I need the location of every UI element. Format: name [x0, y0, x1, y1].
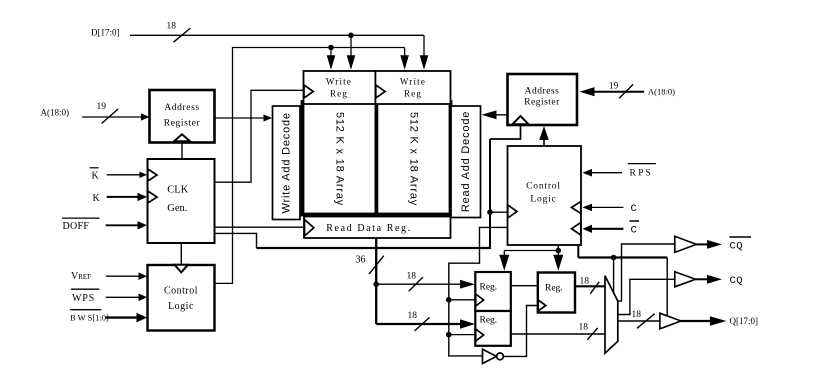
svg-text:Reg.: Reg.: [480, 316, 498, 326]
register Reg output 1: [475, 272, 511, 311]
wire C-bar input: [590, 228, 623, 230]
wire inverter out to reg3 clock: [503, 306, 537, 357]
svg-text:Register: Register: [524, 98, 560, 108]
junction on write line: [328, 45, 334, 51]
svg-text:19: 19: [97, 102, 107, 112]
chevron U6 right C-bar: [572, 223, 581, 236]
svg-text:CLK: CLK: [167, 185, 188, 196]
clock chevron output reg1: [476, 294, 484, 306]
svg-text:R P S: R P S: [630, 169, 651, 179]
svg-text:Logic: Logic: [530, 195, 556, 205]
svg-text:DOFF: DOFF: [63, 221, 90, 232]
svg-text:Read Data Reg.: Read Data Reg.: [326, 223, 411, 234]
chevron U6 right C: [572, 202, 581, 214]
register U5 Address Register right: [508, 74, 578, 125]
wire 36-bus from Read Data Reg: [375, 239, 377, 325]
wire to Q buffer enable: [666, 258, 668, 317]
wire to reg2 chevron: [449, 334, 475, 336]
svg-text:Control: Control: [526, 182, 561, 192]
wire RPS input: [591, 172, 622, 174]
svg-text:18: 18: [167, 22, 177, 32]
svg-text:Reg.: Reg.: [545, 284, 563, 294]
svg-text:Q[17:0]: Q[17:0]: [730, 316, 759, 326]
wire drop to Write Reg 2 (2nd): [404, 48, 406, 58]
svg-text:18: 18: [632, 310, 642, 320]
svg-text:K: K: [92, 171, 100, 182]
wire A input left: [82, 116, 142, 118]
svg-text:Reg: Reg: [330, 89, 348, 99]
buffer CQ-bar: [675, 236, 697, 252]
wire VREF input: [106, 275, 140, 277]
clock chevron output reg3: [538, 300, 546, 311]
svg-text:WPS: WPS: [72, 293, 95, 304]
svg-text:C: C: [631, 203, 637, 215]
bus-width slash 18 c: [590, 282, 599, 294]
block Write Add Decode: [273, 106, 301, 220]
svg-text:CQ: CQ: [730, 275, 744, 287]
svg-text:36: 36: [356, 255, 366, 266]
svg-text:Register: Register: [164, 119, 201, 129]
junction on D bus: [348, 33, 354, 39]
wire clock feed to output registers: [449, 227, 508, 356]
bus-width slash 18 e: [637, 314, 655, 329]
svg-text:A(18:0): A(18:0): [41, 108, 70, 118]
wire clock trunk vertical right: [489, 139, 491, 249]
wire reg2 to mux: [511, 333, 605, 335]
svg-text:Address: Address: [164, 103, 199, 113]
wire enable drop reg3: [557, 251, 559, 256]
junction clock to right Control Logic: [487, 209, 493, 215]
register Write Reg 1: [304, 71, 376, 104]
wire mux to CQ buffer: [618, 279, 675, 314]
wire A input right: [594, 91, 644, 93]
svg-text:512 K x 18 Array: 512 K x 18 Array: [334, 112, 346, 206]
svg-text:Reg: Reg: [404, 89, 422, 99]
wire DOFF input: [106, 224, 140, 226]
block 512Kx18 array outline: [303, 102, 451, 215]
svg-text:D[17:0]: D[17:0]: [91, 28, 120, 38]
clock chevron output reg2: [476, 329, 484, 341]
wire Q out: [681, 320, 711, 322]
register U1 Address Register left: [150, 90, 215, 143]
bus-width slash 18 b: [415, 317, 430, 331]
svg-text:18: 18: [580, 277, 590, 287]
wire 18 to output reg1: [376, 283, 461, 285]
block U6 Control Logic right: [508, 146, 582, 245]
wire BWS input: [106, 316, 138, 318]
wire U6 to U5: [543, 140, 545, 146]
wire mux to Q buffer: [618, 320, 660, 322]
svg-text:Logic: Logic: [168, 301, 194, 312]
wire U2 clock to Read Data Reg: [215, 226, 305, 228]
block U2 CLK Gen: [148, 159, 215, 243]
svg-text:Write Add Decode: Write Add Decode: [281, 112, 293, 213]
wire K input: [107, 196, 140, 198]
svg-text:Write: Write: [400, 77, 426, 87]
wire U2 clock to Write Reg 1: [215, 90, 304, 182]
svg-text:CQ: CQ: [730, 241, 744, 253]
clock chevron Read Data Reg: [305, 220, 314, 237]
wire mux to CQ-bar buffer: [618, 244, 675, 301]
wire K-bar input: [107, 174, 141, 176]
svg-text:B W S[1:0]: B W S[1:0]: [70, 313, 109, 323]
wire CQ out: [696, 278, 708, 280]
wire clock trunk horizontal thick: [257, 247, 491, 249]
bus-width slash 36: [369, 256, 384, 274]
wire control-logic to write regs: [214, 48, 404, 284]
clock notch on U1 bottom: [174, 134, 190, 141]
wire reg3 to mux: [575, 285, 605, 287]
wire 18 to output reg2: [376, 323, 461, 325]
wire drop to Write Reg 1 (2nd): [330, 48, 332, 58]
block Read Add Decode: [451, 106, 481, 218]
junction reg2 clock: [446, 332, 452, 338]
wire U6 to reg3 enable: [557, 245, 559, 251]
wire U2 clock out to right side: [215, 233, 257, 248]
wire D drop to Write Reg 2: [423, 35, 425, 57]
svg-text:Write: Write: [326, 77, 352, 87]
svg-text:18: 18: [579, 323, 589, 333]
svg-text:Gen.: Gen.: [167, 203, 187, 214]
svg-text:C: C: [631, 225, 637, 237]
svg-text:Read Add Decode: Read Add Decode: [460, 111, 472, 212]
svg-text:Address: Address: [525, 87, 560, 97]
clock chevron Write Reg 2: [376, 85, 385, 98]
bus-width slash 18 a: [409, 277, 423, 291]
wire CQ-bar out: [697, 243, 709, 245]
buffer CQ: [675, 272, 696, 287]
register Read Data Reg: [304, 217, 451, 239]
bus-width slash A left: [102, 109, 119, 124]
clock chevron Write Reg 1: [304, 85, 313, 98]
svg-text:VREF: VREF: [71, 271, 91, 282]
wire clock to U5 Address Register right: [490, 126, 521, 140]
svg-text:A(18:0): A(18:0): [648, 87, 675, 97]
clock notch on U5 bottom: [513, 116, 529, 124]
wire U6 clock down: [577, 245, 579, 258]
wire reg1 to reg3: [511, 285, 538, 287]
wire WPS input: [106, 296, 140, 298]
register Reg output 3: [538, 273, 575, 313]
array divider: [374, 102, 378, 215]
svg-text:512 K x 18 Array: 512 K x 18 Array: [408, 112, 420, 206]
svg-text:Reg.: Reg.: [480, 283, 498, 293]
register Reg output 2: [475, 311, 511, 346]
junction on 36 bus: [373, 281, 379, 287]
clock chevron U6 left: [508, 205, 517, 218]
clock chevron U2 K: [148, 191, 157, 203]
wire to reg1 chevron: [449, 299, 475, 301]
register Write Reg 2: [375, 71, 450, 104]
wire clock into U6 chevron: [490, 211, 508, 213]
wire U1 clock from CLK Gen: [181, 143, 183, 159]
wire D bus horizontal: [130, 34, 424, 36]
svg-text:18: 18: [408, 311, 418, 321]
junction mux select: [611, 255, 617, 261]
wire U1 to Write Add Decode: [214, 117, 264, 119]
wire C clock trunk: [578, 256, 667, 258]
wire D drop to Write Reg 1: [350, 35, 352, 57]
wire mux select: [613, 258, 615, 294]
clock chevron U2 K-bar: [148, 169, 157, 181]
clock notch on U3 top: [175, 265, 189, 273]
wire enable to reg1: [504, 250, 558, 252]
bus-width slash D: [174, 28, 191, 42]
bus-width slash A right: [619, 84, 633, 98]
svg-text:Control: Control: [164, 286, 198, 297]
junction enable: [556, 248, 562, 254]
wire U5 to Read Add Decode: [497, 114, 508, 116]
buffer Q: [660, 313, 681, 329]
svg-text:K: K: [93, 193, 101, 204]
junction reg1 clock: [446, 297, 452, 303]
svg-text:19: 19: [609, 82, 619, 92]
block U3 Control Logic left: [148, 265, 215, 331]
wire C input: [590, 206, 623, 208]
mux output select: [605, 276, 618, 353]
svg-text:18: 18: [407, 272, 417, 282]
inverter clock: [483, 349, 497, 363]
bus-width slash 18 d: [587, 328, 597, 340]
wire U2 to U3 clock: [180, 243, 182, 264]
